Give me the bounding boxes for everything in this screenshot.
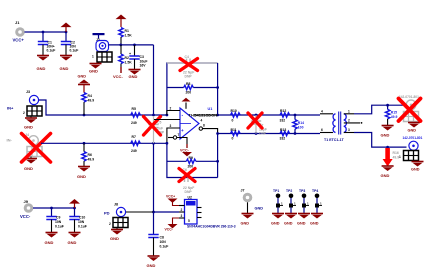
svg-text:0.1uF: 0.1uF [55, 225, 64, 229]
wire output plus [194, 114, 218, 116]
svg-text:TP4: TP4 [312, 189, 318, 193]
power VCC+ symbol [61, 23, 72, 33]
svg-text:GND: GND [78, 75, 87, 79]
svg-text:1.5K: 1.5K [125, 61, 133, 65]
svg-text:U1: U1 [208, 107, 213, 111]
pin stubs U2 left [179, 206, 185, 219]
resistor R15 [385, 105, 397, 125]
test point TP3 [299, 189, 309, 214]
resistor R8 feedback top [167, 82, 218, 95]
svg-text:DNP: DNP [185, 75, 193, 79]
pad grid J3 [23, 106, 42, 116]
connector J6 [403, 136, 423, 151]
svg-text:J7: J7 [241, 189, 245, 193]
svg-text:142-0701-801: 142-0701-801 [403, 136, 423, 140]
ground flipped above R4 [78, 75, 91, 85]
resistor R1 [119, 28, 132, 45]
svg-text:C8: C8 [160, 236, 164, 240]
svg-text:0.1uF: 0.1uF [160, 245, 169, 249]
label U2 part [187, 225, 236, 229]
svg-text:1: 1 [320, 202, 322, 206]
svg-text:GND: GND [411, 168, 420, 172]
wire output minus with bubble [199, 127, 218, 134]
ground below C10 [68, 233, 81, 246]
svg-text:GND: GND [147, 263, 156, 268]
svg-text:J8: J8 [114, 203, 118, 207]
svg-text:49.9: 49.9 [88, 99, 95, 103]
svg-text:1: 1 [294, 202, 296, 206]
wire VOCM vertical [153, 45, 155, 116]
svg-text:DNP: DNP [259, 132, 267, 136]
svg-text:+: + [129, 52, 131, 56]
pad grid J2 [92, 52, 112, 62]
wire output bottom rail [218, 132, 320, 135]
svg-text:10N: 10N [78, 220, 85, 224]
power VCC- below U1 [180, 144, 192, 156]
svg-text:100: 100 [298, 126, 304, 130]
svg-text:2: 2 [348, 119, 350, 123]
svg-text:R11: R11 [231, 128, 237, 132]
resistor R10 [231, 109, 241, 123]
ground below J7 [241, 202, 254, 225]
resistor R16 ghost labels [393, 151, 400, 160]
capacitor C2 [61, 32, 79, 55]
svg-text:C9: C9 [56, 216, 60, 220]
wire J9 to caps [33, 207, 76, 210]
ground below C9 [45, 233, 58, 246]
test point TP2 [286, 189, 296, 214]
svg-text:R7: R7 [132, 135, 136, 139]
svg-text:0: 0 [232, 137, 234, 141]
ground below J6 [411, 161, 424, 172]
svg-text:J1: J1 [15, 20, 20, 25]
wire feedback top right vertical [216, 63, 219, 116]
svg-text:VCC-: VCC- [20, 214, 31, 219]
power VCC- U2 [165, 218, 180, 232]
svg-text:TP3: TP3 [299, 189, 305, 193]
resistor R9 feedback bottom [167, 156, 218, 169]
red X over J5 [399, 99, 421, 122]
pin stubs U2 right [197, 208, 202, 218]
svg-text:R14: R14 [298, 121, 304, 125]
svg-text:200: 200 [186, 91, 192, 95]
svg-text:3: 3 [170, 124, 172, 128]
ground below R16 [381, 166, 394, 178]
power flag VOCM [93, 33, 105, 42]
ground below J5 [408, 123, 421, 133]
wire feedback top left vertical [166, 63, 218, 116]
svg-text:GND: GND [255, 207, 264, 211]
svg-text:GND: GND [271, 222, 280, 226]
svg-text:5: 5 [188, 219, 190, 223]
wire feedback bottom right vertical [216, 132, 219, 177]
red X over C5 [144, 117, 161, 136]
svg-text:-: - [182, 113, 184, 119]
ground below J8 [110, 228, 123, 242]
svg-text:GND: GND [297, 222, 306, 226]
pin PD with bubble [168, 133, 187, 144]
power VCC symbol above R1 [116, 15, 127, 28]
svg-text:SN74AHC1G04DBVR 296-110-3: SN74AHC1G04DBVR 296-110-3 [187, 225, 236, 229]
ground below R15 [381, 126, 394, 138]
wire feedback bottom left vertical [166, 142, 218, 178]
svg-text:R16: R16 [393, 151, 399, 155]
svg-text:GND: GND [110, 236, 119, 241]
svg-text:7: 7 [178, 133, 180, 137]
svg-text:DNP: DNP [185, 190, 193, 194]
svg-text:2: 2 [181, 208, 183, 212]
red X over C6 [179, 169, 195, 182]
resistor R7 series input bottom [131, 135, 141, 153]
wire output top rail [218, 114, 320, 117]
svg-text:GND: GND [129, 74, 138, 79]
svg-text:C10: C10 [79, 216, 85, 220]
resistor R13 [280, 128, 290, 141]
connector J7 GND jack [241, 189, 264, 211]
svg-text:2: 2 [170, 107, 172, 111]
svg-text:GND: GND [381, 173, 390, 178]
svg-text:2: 2 [109, 222, 111, 226]
ground below C3 [129, 70, 141, 80]
svg-text:R2: R2 [125, 56, 129, 60]
resistor R4 [82, 85, 94, 115]
wire bias node [109, 44, 154, 47]
pin stubs U1 inputs [154, 107, 180, 144]
svg-text:16V: 16V [140, 64, 147, 68]
svg-text:GND: GND [241, 222, 250, 226]
pin stub T1 pin1 [344, 113, 354, 115]
wire J3 to amp [39, 100, 167, 116]
svg-text:VCC-: VCC- [165, 228, 173, 232]
svg-text:0.1uF: 0.1uF [47, 49, 56, 53]
svg-text:+: + [181, 128, 184, 133]
svg-text:R8: R8 [186, 82, 190, 86]
svg-text:GND: GND [68, 240, 77, 245]
svg-text:1: 1 [399, 155, 401, 159]
svg-text:49.9: 49.9 [391, 115, 398, 119]
resistor R11 [231, 128, 241, 141]
svg-text:GND: GND [89, 69, 98, 74]
svg-text:TP2: TP2 [286, 189, 292, 193]
ground below TP3 [297, 214, 310, 226]
svg-text:10N: 10N [55, 220, 62, 224]
capacitor C3 [129, 45, 147, 69]
test point TP1 [273, 189, 283, 214]
node IN+ label [7, 106, 14, 111]
capacitor C7 output DNP ghost [251, 115, 267, 136]
capacitor C6 feedback DNP ghost [183, 168, 195, 194]
svg-text:2: 2 [23, 111, 25, 115]
svg-text:VCC+: VCC+ [166, 195, 175, 199]
ground below J4 [24, 157, 37, 172]
svg-text:3: 3 [348, 128, 350, 132]
pin stub T1 pin3 [344, 132, 354, 134]
connector J1 [13, 20, 25, 43]
svg-text:VCC-: VCC- [180, 149, 190, 153]
IC U2 [185, 196, 198, 225]
svg-text:0.1uF: 0.1uF [78, 225, 87, 229]
resistor R12 [280, 109, 290, 123]
svg-text:J3: J3 [26, 90, 30, 94]
ground below J2 [89, 62, 102, 74]
wire J1 to caps [25, 31, 68, 34]
svg-text:R12: R12 [280, 109, 286, 113]
resistor R5 series input top [131, 107, 141, 125]
svg-text:T1 ETC1-1T: T1 ETC1-1T [324, 138, 345, 142]
svg-text:1: 1 [92, 55, 94, 59]
svg-text:249: 249 [131, 121, 137, 125]
svg-text:GND: GND [24, 166, 33, 171]
svg-text:R6: R6 [88, 153, 92, 157]
ground below C2 [60, 56, 73, 72]
svg-text:3: 3 [181, 214, 183, 218]
svg-text:VCC+: VCC+ [13, 38, 25, 43]
ground below TP4 [310, 214, 323, 226]
ground below J3 [24, 116, 37, 130]
power VCC+ above U1 [182, 98, 191, 109]
svg-text:GND: GND [310, 222, 319, 226]
capacitor C10 [69, 208, 87, 232]
capacitor C9 [46, 208, 64, 232]
pin stub T1 pin2 [344, 122, 363, 124]
capacitor C4 feedback DNP ghost [167, 55, 218, 79]
svg-text:0: 0 [232, 119, 234, 123]
capacitor C5 diff DNP ghost [148, 116, 165, 143]
svg-text:142-0701-801: 142-0701-801 [399, 95, 419, 99]
connector J9 [20, 199, 33, 219]
resistor R6 [82, 143, 94, 166]
resistor R2 [119, 45, 132, 67]
svg-text:4: 4 [321, 110, 323, 114]
svg-text:GND: GND [284, 222, 293, 226]
svg-text:GND: GND [60, 66, 69, 71]
svg-text:R5: R5 [132, 107, 136, 111]
power VCC+ U2 [166, 195, 179, 206]
svg-text:R9: R9 [189, 156, 193, 160]
svg-text:R4: R4 [88, 94, 92, 98]
svg-text:GND: GND [381, 133, 390, 138]
svg-text:10N: 10N [160, 240, 167, 244]
svg-text:IN+: IN+ [7, 106, 14, 111]
ground below C1 [37, 56, 50, 72]
ground below R6 [77, 167, 90, 180]
ground below C8 [147, 256, 160, 268]
svg-text:332: 332 [280, 119, 286, 123]
connector J8 PD [104, 203, 154, 217]
power VCC- symbol [69, 199, 80, 208]
svg-text:1.5K: 1.5K [125, 34, 133, 38]
connector J5 DNP ghost [399, 95, 419, 122]
svg-text:8: 8 [203, 124, 205, 128]
pad grid J8 [109, 218, 128, 228]
svg-text:PD: PD [104, 211, 110, 216]
red arrow annotation over R16 [383, 148, 393, 167]
svg-text:200: 200 [188, 165, 194, 169]
svg-text:1: 1 [307, 202, 309, 206]
capacitor C8 [148, 212, 168, 256]
capacitor C1 [38, 32, 56, 55]
svg-text:249: 249 [131, 149, 137, 153]
svg-text:GND: GND [77, 174, 86, 179]
svg-text:GND: GND [37, 66, 46, 71]
transformer T1 [320, 110, 350, 143]
connector J2 VOCM [96, 41, 109, 52]
svg-text:GND: GND [24, 125, 33, 130]
svg-text:49.9: 49.9 [88, 158, 95, 162]
red X over C7 [248, 113, 262, 128]
wire out minus [354, 133, 407, 149]
svg-text:R15: R15 [391, 111, 397, 115]
resistor R14 shunt [293, 115, 304, 134]
pad grid J6 [399, 151, 419, 161]
svg-text:4: 4 [201, 119, 203, 123]
svg-text:VCC-: VCC- [113, 74, 123, 79]
ground below TP1 [271, 214, 284, 226]
label U1 [189, 107, 218, 128]
red X over C4 [180, 59, 198, 71]
wire VOCM lower vertical [152, 143, 179, 213]
svg-text:TP1: TP1 [273, 189, 279, 193]
svg-text:22 NpF: 22 NpF [183, 186, 194, 190]
svg-text:0.1uF: 0.1uF [70, 49, 79, 53]
test point TP4 [312, 189, 322, 214]
svg-text:IN-: IN- [7, 138, 13, 143]
node IN- label [7, 138, 13, 143]
svg-text:1: 1 [281, 202, 283, 206]
power VCC- below R2 [113, 67, 123, 79]
svg-text:GND: GND [408, 129, 417, 133]
svg-text:1: 1 [348, 110, 350, 114]
op-amp U1 [180, 108, 199, 139]
ground below TP2 [284, 214, 297, 226]
red X over J4 [22, 134, 51, 163]
svg-text:R10: R10 [231, 109, 237, 113]
connector J4 DNP ghost [25, 133, 42, 157]
wire out plus [354, 104, 404, 114]
svg-text:C3: C3 [140, 55, 144, 59]
svg-text:R13: R13 [280, 128, 286, 132]
connector J3 [26, 90, 39, 105]
svg-text:6: 6 [321, 128, 323, 132]
svg-text:C4: C4 [185, 55, 189, 59]
svg-text:332: 332 [280, 137, 286, 141]
svg-text:R1: R1 [125, 29, 129, 33]
svg-text:GND: GND [45, 240, 54, 245]
wire J4 to amp [41, 142, 167, 145]
